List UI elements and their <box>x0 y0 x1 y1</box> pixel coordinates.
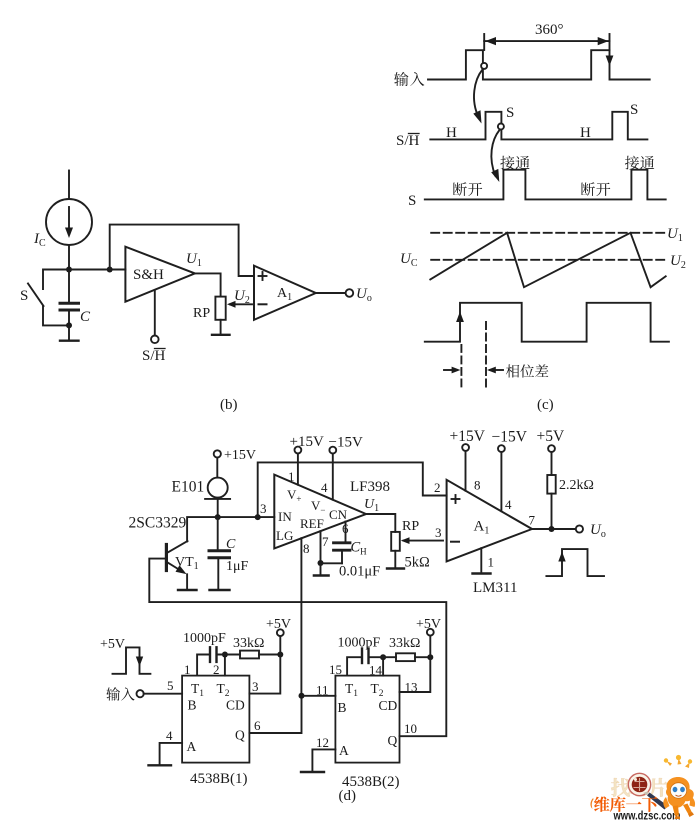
resistor 33k (2) <box>396 653 430 661</box>
svg-text:CN: CN <box>329 507 348 522</box>
label S <box>20 288 28 304</box>
label 断开 1 <box>453 182 482 196</box>
label S/H bar <box>142 348 166 364</box>
svg-text:12: 12 <box>316 735 329 750</box>
label 输入 (d) <box>106 687 134 700</box>
wire: A1 output <box>316 292 346 294</box>
label B (2) <box>338 700 347 715</box>
svg-text:+15V: +15V <box>224 448 256 463</box>
label UC <box>400 251 418 269</box>
svg-text:U2: U2 <box>670 253 686 271</box>
ground: below RP (d) <box>387 551 404 569</box>
pin 4 label <box>505 497 512 512</box>
label 33k (1) <box>233 636 264 651</box>
waveform: output square <box>425 303 669 342</box>
svg-text:U1: U1 <box>186 251 202 269</box>
resistor 33k (1) <box>240 651 280 659</box>
label IN <box>278 509 292 524</box>
label 1000pF (2) <box>338 636 381 651</box>
transistor VT1 2SC3329 <box>166 541 187 589</box>
svg-text:2: 2 <box>434 480 441 495</box>
svg-text:T2: T2 <box>371 681 384 699</box>
ground: below C <box>60 325 79 340</box>
terminal +15V LM311 <box>462 444 469 451</box>
label B (1) <box>188 698 197 713</box>
svg-text:IC: IC <box>33 231 46 249</box>
pin 7 label <box>322 534 329 549</box>
ground: VT1 emitter <box>178 589 197 591</box>
svg-text:(d): (d) <box>339 788 357 804</box>
pin 7 LF398 <box>320 531 322 563</box>
label S row <box>408 193 416 209</box>
label CD (1) <box>226 698 245 713</box>
svg-text:VT1: VT1 <box>175 555 199 572</box>
capacitor C <box>60 270 79 326</box>
svg-text:A1: A1 <box>474 519 490 537</box>
svg-text:S/H: S/H <box>142 348 166 364</box>
svg-text:5kΩ: 5kΩ <box>405 555 431 571</box>
terminal input <box>137 690 144 697</box>
pin 3 label LF398 <box>260 501 267 516</box>
node marker circle on input falling edge <box>481 63 487 69</box>
svg-text:C: C <box>226 537 236 552</box>
label LM311 <box>473 580 517 596</box>
pin 1 LM311 <box>480 548 482 571</box>
wire: node to VT1 collector <box>187 517 218 541</box>
dashed level U1 <box>431 232 664 234</box>
dimension 360 deg <box>484 34 613 66</box>
svg-text:A: A <box>187 739 197 754</box>
svg-text:www.dzsc.com: www.dzsc.com <box>613 809 681 821</box>
pin 4 LF398 <box>332 454 334 500</box>
photosensor E101 <box>205 458 230 518</box>
label Q (2) <box>388 733 398 748</box>
watermark swoosh <box>590 799 594 810</box>
svg-text:U1: U1 <box>667 226 683 244</box>
svg-text:T2: T2 <box>217 681 230 699</box>
terminal +5V (2) <box>427 629 434 657</box>
label A1 <box>277 286 292 303</box>
terminal Uo (b) <box>346 289 354 297</box>
label RP (d) <box>402 519 419 534</box>
pin 1 label <box>488 555 495 570</box>
wire: LM311 output <box>532 528 576 530</box>
capacitor C 1uF <box>209 517 230 589</box>
svg-text:E101: E101 <box>172 479 205 496</box>
label T2 (2) <box>371 681 384 699</box>
svg-text:Q: Q <box>388 733 398 748</box>
label V+ <box>287 487 301 504</box>
svg-text:33kΩ: 33kΩ <box>233 636 264 651</box>
ground: LM311 pin1 <box>473 572 491 574</box>
terminal -15V LF398 <box>329 447 336 454</box>
svg-text:CD: CD <box>379 698 398 713</box>
svg-text:7: 7 <box>322 534 329 549</box>
switch S <box>28 270 69 326</box>
comparator A1 LM311 <box>447 480 532 562</box>
svg-text:4: 4 <box>505 497 512 512</box>
svg-text:3: 3 <box>252 679 259 694</box>
label LF398 <box>350 479 390 495</box>
svg-text:6: 6 <box>342 521 349 536</box>
glyph: input trigger pulse <box>113 647 151 673</box>
label CN <box>329 507 348 522</box>
label 2.2k <box>559 478 594 493</box>
pin 8 label <box>474 478 481 493</box>
svg-text:Uo: Uo <box>590 522 606 540</box>
wire: node to S&H input <box>69 269 125 271</box>
terminal +5V 2.2k <box>548 445 555 452</box>
svg-text:15: 15 <box>329 662 342 677</box>
svg-text:S: S <box>20 288 28 304</box>
svg-text:UC: UC <box>400 251 418 269</box>
svg-text:S/H: S/H <box>396 133 420 149</box>
node: E101 output junction <box>215 514 221 520</box>
label A1 LM311 <box>474 519 490 537</box>
label T2 (1) <box>217 681 230 699</box>
label U2 <box>234 288 250 306</box>
wire: ramp node to LM311 + input <box>258 462 447 517</box>
svg-text:+15V: +15V <box>290 434 324 450</box>
dashed marker line 1 <box>460 345 462 388</box>
label C <box>80 309 91 325</box>
waveform: input row <box>428 50 650 79</box>
arrow: rising edge marker <box>456 312 464 323</box>
svg-text:Q: Q <box>235 728 245 743</box>
label 0.01uF <box>339 564 380 580</box>
wire: current source top feed <box>68 171 70 200</box>
wire: feedback to A1 + input <box>110 225 254 276</box>
label IC <box>33 231 46 249</box>
label Uo (b) <box>356 286 372 304</box>
svg-text:5: 5 <box>167 678 174 693</box>
svg-text:(c): (c) <box>537 397 554 413</box>
pin 2 label <box>434 480 441 495</box>
svg-text:S: S <box>408 193 416 209</box>
label T1 (1) <box>191 681 204 699</box>
svg-text:−15V: −15V <box>492 429 528 446</box>
pin 7 label <box>529 513 536 528</box>
svg-text:1000pF: 1000pF <box>338 636 381 651</box>
svg-text:REF: REF <box>300 516 324 531</box>
pin 14 lead + label <box>369 657 383 677</box>
label S pulse 2 <box>630 102 638 118</box>
label RP <box>193 306 210 321</box>
svg-text:IN: IN <box>278 509 292 524</box>
sample-hold LF398 U1 <box>274 475 366 549</box>
label 接通 1 <box>500 156 529 170</box>
label (b) <box>220 397 238 413</box>
svg-text:S: S <box>630 102 638 118</box>
svg-text:7: 7 <box>529 513 536 528</box>
watermark mascot <box>663 755 695 819</box>
waveform: S/H row <box>430 112 647 140</box>
label S&H <box>133 267 164 283</box>
label -15V LM311 <box>492 429 528 446</box>
capacitor 1000pF (1) <box>210 647 217 662</box>
svg-text:T1: T1 <box>345 681 358 699</box>
svg-text:RP: RP <box>402 519 419 534</box>
pin 1 LF398 <box>297 453 299 484</box>
pin 6 LF398 <box>345 522 347 543</box>
svg-text:+5V: +5V <box>100 637 125 652</box>
label +15V LF398 <box>290 434 324 450</box>
svg-text:2SC3329: 2SC3329 <box>129 515 187 532</box>
node: 33k +5V junction (1) <box>277 652 283 658</box>
svg-text:14: 14 <box>369 663 383 678</box>
capacitor 1000pF (2) <box>362 649 369 664</box>
potentiometer RP 5k <box>391 532 443 551</box>
monostable 4538B(2) <box>335 676 399 763</box>
label E101 <box>172 479 205 496</box>
pin 3 wire + label <box>249 655 280 695</box>
capacitor CH <box>334 543 351 564</box>
label U1 level <box>667 226 683 244</box>
label +5V (2) <box>416 617 441 632</box>
label 33k (2) <box>389 636 420 651</box>
svg-text:2: 2 <box>213 662 220 677</box>
pin 6 wire + label <box>249 696 301 733</box>
node: 33k +5V junction (2) <box>427 654 433 660</box>
svg-text:4: 4 <box>166 728 173 743</box>
svg-text:11: 11 <box>316 683 329 698</box>
node marker circle on S/H falling edge <box>498 124 504 130</box>
watermark text 找芯片 <box>611 778 668 797</box>
svg-text:U1: U1 <box>364 497 379 514</box>
node: Q1-B2 junction <box>299 693 305 699</box>
waveform: UC sawtooth <box>430 233 665 287</box>
label S pulse 1 <box>506 105 514 121</box>
label T1 (2) <box>345 681 358 699</box>
svg-text:Uo: Uo <box>356 286 372 304</box>
svg-text:10: 10 <box>404 721 417 736</box>
current source IC <box>46 199 92 270</box>
dashed marker line 2 <box>485 322 487 388</box>
svg-text:33kΩ: 33kΩ <box>389 636 420 651</box>
pin 5 label <box>167 678 174 693</box>
pin 8 LF398 wire down <box>300 538 302 696</box>
label 1000pF (1) <box>183 631 226 646</box>
svg-text:C: C <box>80 309 91 325</box>
label 断开 2 <box>581 182 610 196</box>
label A (2) <box>339 743 349 758</box>
label 4538B(2) <box>342 774 400 790</box>
svg-text:V+: V+ <box>287 487 301 504</box>
label H 2 <box>580 125 591 141</box>
pin 8 label <box>303 541 310 556</box>
svg-text:1: 1 <box>488 555 495 570</box>
svg-text:1000pF: 1000pF <box>183 631 226 646</box>
label U1 LF398 <box>364 497 379 514</box>
svg-text:H: H <box>580 125 591 141</box>
svg-text:13: 13 <box>405 680 418 695</box>
svg-text:A1: A1 <box>277 286 292 303</box>
svg-text:V−: V− <box>311 498 325 515</box>
svg-text:S: S <box>506 105 514 121</box>
terminal +15V LF398 <box>295 447 302 454</box>
op-amp A1 <box>254 266 316 320</box>
svg-text:+5V: +5V <box>266 617 291 632</box>
pin 8 LM311 <box>465 451 467 491</box>
svg-text:CD: CD <box>226 698 245 713</box>
label 接通 2 <box>625 156 654 170</box>
label +15V E101 <box>224 448 256 463</box>
label (c) <box>537 397 554 413</box>
label 5k <box>405 555 431 571</box>
watermark pen <box>643 791 668 809</box>
ground: pin 4 <box>149 764 172 766</box>
wire: input to pin 5 <box>144 693 182 695</box>
pin 12 wire + label <box>312 735 335 772</box>
ground: below RP <box>212 320 230 335</box>
label Uo (d) <box>590 522 606 540</box>
waveform: S row <box>425 170 666 200</box>
label (d) <box>339 788 357 804</box>
svg-text:RP: RP <box>193 306 210 321</box>
svg-text:8: 8 <box>474 478 481 493</box>
node: pin7 CH junction <box>318 560 343 566</box>
pin 1 lead + label <box>184 655 209 678</box>
pin 4 wire + label <box>160 728 183 765</box>
label 输入 (c) <box>394 72 424 86</box>
label +5V 2.2k <box>537 428 565 445</box>
watermark url www.dzsc.com <box>613 809 681 821</box>
pin 4 LM311 <box>500 452 502 511</box>
label +5V input pulse <box>100 637 125 652</box>
label Q (1) <box>235 728 245 743</box>
pin 13 wire + label <box>400 657 431 694</box>
wire: VT1 base to Q10 line <box>149 559 446 737</box>
resistor 2.2k <box>547 452 555 529</box>
label 1uF <box>226 559 249 574</box>
label H 1 <box>446 125 457 141</box>
label REF <box>300 516 324 531</box>
svg-text:T1: T1 <box>191 681 204 699</box>
label V- <box>311 498 325 515</box>
label 4538B(1) <box>190 771 248 787</box>
svg-text:B: B <box>188 698 197 713</box>
monostable 4538B(1) <box>182 676 249 763</box>
terminal +15V E101 <box>214 450 221 457</box>
svg-text:B: B <box>338 700 347 715</box>
svg-text:8: 8 <box>303 541 310 556</box>
node: cap14 junction (2) <box>369 654 397 660</box>
label +5V (1) <box>266 617 291 632</box>
wire: node to LF398 input <box>218 516 275 518</box>
pin 11 label <box>316 683 329 698</box>
pin 10 label <box>404 721 417 736</box>
label CH <box>351 540 368 557</box>
pin 15 lead + label <box>329 657 362 677</box>
label 相位差 <box>506 364 548 377</box>
svg-text:360°: 360° <box>535 22 564 38</box>
terminal Uo (d) <box>576 525 583 532</box>
terminal S/H control <box>151 336 159 344</box>
label +15V LM311 <box>450 428 486 445</box>
ground: below C 1uF <box>210 589 230 591</box>
node: cap bottom junction <box>66 322 72 328</box>
svg-text:+5V: +5V <box>416 617 441 632</box>
arrow: input edge to S/H <box>473 70 482 124</box>
wire: S&H control stub <box>154 290 156 335</box>
watermark text 维库一下 <box>594 796 658 812</box>
node: cap2 junction (1) <box>217 652 241 658</box>
svg-text:3: 3 <box>260 501 267 516</box>
svg-text:1μF: 1μF <box>226 559 249 574</box>
glyph: output pulse symbol <box>546 549 604 576</box>
svg-text:CH: CH <box>351 540 368 557</box>
pin 6 label <box>342 521 349 536</box>
svg-text:U2: U2 <box>234 288 250 306</box>
label VT1 <box>175 555 199 572</box>
label -15V LF398 <box>329 435 363 451</box>
svg-text:(b): (b) <box>220 397 238 413</box>
svg-text:0.01μF: 0.01μF <box>339 564 380 580</box>
svg-text:1: 1 <box>288 469 295 484</box>
node: LF398 input junction <box>255 514 261 520</box>
svg-text:LM311: LM311 <box>473 580 517 596</box>
label U2 level <box>670 253 686 271</box>
pin 2 lead + label <box>213 655 225 678</box>
svg-text:−15V: −15V <box>329 435 363 451</box>
svg-text:4: 4 <box>321 480 328 495</box>
svg-text:6: 6 <box>254 718 261 733</box>
node: cap top junction <box>66 267 72 273</box>
ground: LF398 pin7 <box>314 563 329 575</box>
pin 1 label <box>288 469 295 484</box>
watermark magnifier <box>628 773 650 795</box>
label U1 <box>186 251 202 269</box>
potentiometer RP <box>215 297 252 320</box>
wire: LF398 output to RP (d) <box>366 514 395 532</box>
pin 3 label LM311 <box>435 525 442 540</box>
wire: S&H output to RP <box>195 273 221 296</box>
dashed level U2 <box>431 259 664 261</box>
sample-hold block S&H <box>125 247 194 302</box>
svg-text:2.2kΩ: 2.2kΩ <box>559 478 594 493</box>
svg-text:LG: LG <box>276 528 293 543</box>
label 2SC3329 <box>129 515 187 532</box>
terminal +5V (1) <box>277 629 284 654</box>
label 360 <box>535 22 564 38</box>
svg-text:3: 3 <box>435 525 442 540</box>
svg-text:A: A <box>339 743 349 758</box>
node: feedback tap junction <box>107 267 113 273</box>
terminal -15V LM311 <box>498 445 505 452</box>
label A (1) <box>187 739 197 754</box>
arrow: S/H edge to S <box>491 130 499 182</box>
svg-text:S&H: S&H <box>133 267 164 283</box>
label LG <box>276 528 293 543</box>
label C (1uF cap) <box>226 537 236 552</box>
svg-text:+5V: +5V <box>537 428 565 445</box>
label CD (2) <box>379 698 398 713</box>
wire: node to pin 11 <box>302 695 336 697</box>
svg-text:H: H <box>446 125 457 141</box>
svg-text:LF398: LF398 <box>350 479 390 495</box>
phase arrows <box>444 367 503 374</box>
svg-text:+15V: +15V <box>450 428 486 445</box>
ground: pin 12 <box>301 771 324 773</box>
label S/H row <box>396 133 420 149</box>
svg-text:1: 1 <box>184 662 191 677</box>
svg-text:4538B(1): 4538B(1) <box>190 771 248 787</box>
pin 4 label <box>321 480 328 495</box>
node: output junction <box>549 526 555 532</box>
